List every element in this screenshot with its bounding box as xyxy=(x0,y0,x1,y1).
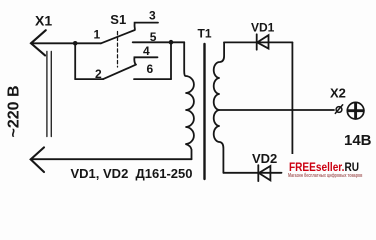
svg-text:S1: S1 xyxy=(110,12,126,27)
transformer T1 primary winding xyxy=(184,42,194,159)
terminal plus circle xyxy=(347,102,364,119)
terminal small circle with slash xyxy=(335,105,342,114)
svg-text:2: 2 xyxy=(95,67,102,81)
wire secondary top to VD1 xyxy=(224,41,292,43)
switch contact 5 line xyxy=(133,41,185,43)
transformer T1 secondary winding xyxy=(214,42,224,172)
svg-text:VD1: VD1 xyxy=(251,20,275,34)
switch contact 3 with tick xyxy=(135,23,159,30)
svg-text:VD2: VD2 xyxy=(252,151,277,166)
diode VD1 xyxy=(257,34,269,49)
switch contact 6 line xyxy=(134,78,171,80)
svg-text:3: 3 xyxy=(149,9,156,23)
wire right bus vertical xyxy=(291,42,293,154)
wire to switch pole 2 xyxy=(75,78,103,80)
svg-text:T1: T1 xyxy=(198,27,212,41)
wire top from X1 to switch xyxy=(31,42,101,44)
mains cord twin lines xyxy=(47,52,51,137)
svg-text:VD1, VD2 Д161-250: VD1, VD2 Д161-250 xyxy=(71,166,193,181)
svg-text:X2: X2 xyxy=(330,86,346,101)
svg-text:X1: X1 xyxy=(35,13,52,29)
svg-text:5: 5 xyxy=(150,30,157,44)
transformer T1 core xyxy=(203,44,205,179)
diode VD2 xyxy=(258,165,270,181)
svg-text:4: 4 xyxy=(143,44,150,58)
wire secondary bottom to VD2 xyxy=(223,172,281,174)
svg-text:14В: 14В xyxy=(344,132,372,149)
node junction dot top xyxy=(73,41,78,46)
switch mechanical link dashed xyxy=(117,32,119,68)
svg-text:~220 В: ~220 В xyxy=(5,85,22,137)
svg-text:1: 1 xyxy=(94,28,101,42)
wire secondary tap to X2 xyxy=(220,109,334,111)
node junction dot on line 5 xyxy=(169,40,174,45)
watermark FREEseller.RU logo xyxy=(283,154,376,188)
connector X1 arrow top pin xyxy=(31,30,46,55)
wire bottom from X1 to transformer xyxy=(31,158,192,160)
switch S1 pole 1 moving arm xyxy=(101,30,135,43)
switch S1 pole 2 moving arm xyxy=(103,65,136,80)
wire contact6 up to contact5 xyxy=(170,42,172,79)
svg-text:6: 6 xyxy=(147,62,154,76)
wire vertical from junction down xyxy=(74,43,76,79)
switch contact 4 with tick xyxy=(134,57,157,64)
connector X1 arrow bottom pin xyxy=(31,147,44,172)
